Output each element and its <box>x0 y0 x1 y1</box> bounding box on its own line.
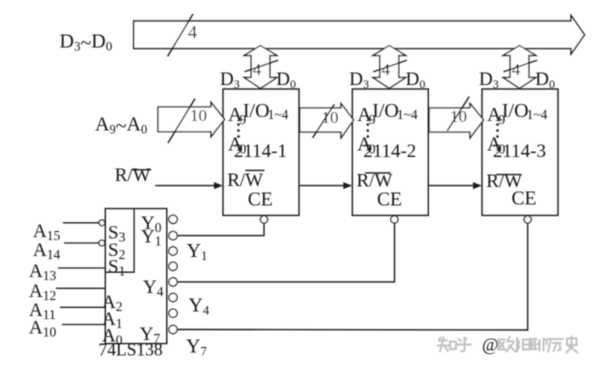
2114-3 data double-arrow <box>503 46 536 89</box>
R/W wire to 2114-2 <box>300 185 346 187</box>
wire A10 <box>62 324 105 326</box>
2114-3 CE bubble <box>524 216 531 223</box>
svg-text:4: 4 <box>253 60 262 79</box>
svg-text:10: 10 <box>322 108 339 127</box>
address arrow 1 (/10) <box>158 102 225 136</box>
svg-text:CE: CE <box>248 189 273 210</box>
2114-1 ellipsis dots <box>237 123 240 126</box>
output bubble Y3 <box>169 262 177 270</box>
address arrow 1 slash <box>168 99 195 143</box>
RAM chip 2114-2 <box>352 89 428 215</box>
wire A11 <box>60 306 105 308</box>
wire A12 <box>56 287 105 289</box>
address arrow 2 slash <box>313 104 335 137</box>
svg-text:2114-1: 2114-1 <box>234 141 287 162</box>
output bubble Y1 <box>169 231 177 239</box>
2114-2 data arrow slash <box>373 60 407 72</box>
svg-text:4: 4 <box>512 60 521 79</box>
svg-text:2114-2: 2114-2 <box>363 141 416 162</box>
svg-text:@: @ <box>482 335 499 355</box>
svg-text:2114-3: 2114-3 <box>493 141 546 162</box>
2114-3 ellipsis dots <box>496 123 499 126</box>
svg-text:CE: CE <box>512 189 537 210</box>
wire Y7 to 2114-3 CE <box>177 223 528 330</box>
data bus D3~D0 (hollow arrow) <box>134 16 585 55</box>
2114-2 data double-arrow <box>373 46 406 89</box>
wire Y4 to 2114-2 CE <box>177 223 394 282</box>
wire A13 <box>58 267 105 269</box>
svg-text:A9~A0: A9~A0 <box>95 114 147 138</box>
svg-text:4: 4 <box>188 22 197 42</box>
2114-1 CE bubble <box>260 216 267 223</box>
address arrow 3 (/10) <box>429 104 483 138</box>
wire A14 <box>64 242 99 244</box>
address arrow 2 (/10) <box>300 104 354 138</box>
svg-text:10: 10 <box>190 106 207 125</box>
svg-text:4: 4 <box>382 60 391 79</box>
decoder select sub-box <box>105 209 134 273</box>
svg-text:R/W: R/W <box>115 165 151 186</box>
svg-text:CE: CE <box>377 189 402 210</box>
wire A15 <box>63 222 99 224</box>
bus width slash <box>168 14 193 56</box>
decoder 74LS138 <box>105 209 167 344</box>
svg-text:10: 10 <box>450 107 467 126</box>
svg-text:D3~D0: D3~D0 <box>60 31 113 55</box>
output bubble Y7 <box>169 325 177 333</box>
RAM chip 2114-3 <box>482 89 558 215</box>
2114-3 data arrow slash <box>504 60 538 72</box>
output bubble Y4 <box>169 278 177 286</box>
R/W wire to 2114-3 <box>429 185 475 187</box>
2114-2 CE bubble <box>391 216 398 223</box>
2114-1 data double-arrow <box>244 46 277 89</box>
2114-2 ellipsis dots <box>367 123 370 126</box>
R/W wire to 2114-1 <box>155 185 216 187</box>
input bubble S3 <box>99 220 105 226</box>
svg-text:74LS138: 74LS138 <box>99 340 163 360</box>
output bubble Y2 <box>169 247 177 255</box>
address arrow 3 slash <box>447 97 469 131</box>
2114-1 data arrow slash <box>245 60 279 72</box>
output bubble Y6 <box>169 309 177 317</box>
input bubble S2 <box>99 240 105 246</box>
output bubble Y5 <box>169 293 177 301</box>
RAM chip 2114-1 <box>223 89 299 215</box>
output bubble Y0 <box>169 215 177 223</box>
svg-text:R/W: R/W <box>227 170 263 191</box>
watermark 知乎 @欧阳聊历史 <box>438 338 472 352</box>
wire Y1 to 2114-1 CE <box>177 223 264 236</box>
